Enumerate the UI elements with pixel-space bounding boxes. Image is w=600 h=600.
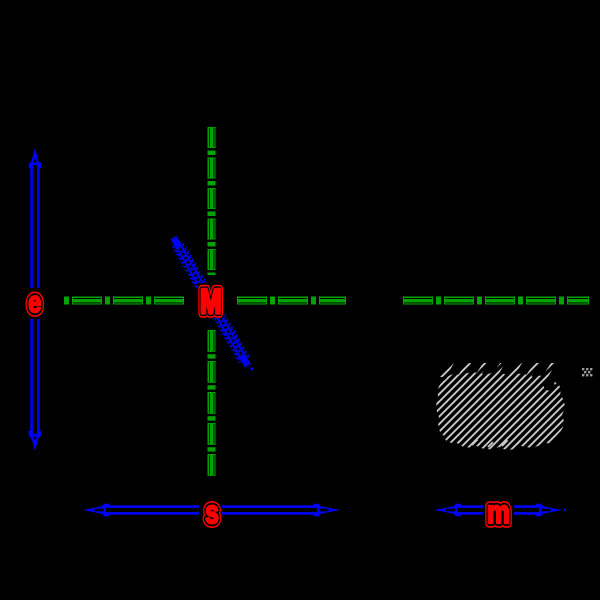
- black backing for label s: [199, 496, 222, 524]
- dimension arrow s (horizontal double-headed blue arrow): [83, 504, 340, 517]
- small gray mark (top-right of hatched region): [582, 368, 592, 376]
- horizontal optical axis, middle chunk: [237, 297, 267, 305]
- label s: [205, 495, 219, 531]
- label m: [487, 495, 509, 531]
- stray speck beyond mirror tip: [251, 368, 254, 371]
- svg-text:e: e: [28, 285, 41, 318]
- svg-text:m: m: [487, 495, 509, 531]
- black backing for label M: [198, 283, 225, 318]
- horizontal optical axis (green dash-dot), left chunk: [64, 297, 69, 305]
- vertical axis, lower chunk: [208, 330, 216, 352]
- horizontal optical axis, right chunk: [403, 297, 433, 305]
- stray speck beyond m arrow tip: [564, 509, 567, 512]
- dimension arrow e (vertical double-headed blue arrow): [29, 148, 42, 451]
- black backing for label e: [25, 288, 45, 319]
- mirror M (blue diagonal double-headed line with hatch texture): [172, 236, 250, 367]
- black backing for label m: [483, 496, 514, 524]
- svg-text:s: s: [205, 495, 219, 531]
- label e: [28, 285, 41, 318]
- dimension arrow m (horizontal double-headed blue arrow): [435, 504, 563, 517]
- svg-text:M: M: [200, 284, 221, 321]
- label M (mirror): [200, 284, 221, 321]
- hatched screen/wall region: [436, 363, 564, 450]
- vertical axis (green dash-dot), upper chunk: [208, 127, 216, 148]
